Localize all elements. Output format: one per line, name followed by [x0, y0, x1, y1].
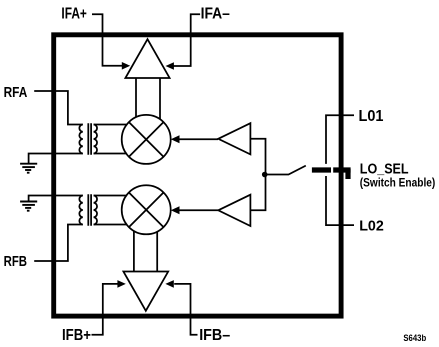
wire T2 secondary to mixer B	[94, 196, 130, 225]
ground symbol GND B	[20, 202, 37, 211]
wire LO2 bracket lower	[326, 176, 354, 225]
wire ground B lead	[29, 196, 83, 202]
arrowhead LO into mixer A	[171, 135, 180, 143]
mixer A circle	[122, 115, 171, 164]
svg-text:IFB–: IFB–	[199, 327, 230, 344]
block arrow shaft A	[136, 78, 160, 126]
switch enable bar stub	[345, 169, 350, 179]
svg-text:LO_SEL: LO_SEL	[360, 161, 409, 177]
svg-text:S643b: S643b	[403, 333, 426, 344]
wire LO buffer B to mixer B	[178, 209, 218, 211]
arrowhead IFA+ into amp A	[122, 62, 130, 70]
arrowhead IFB+ into amp B	[117, 280, 125, 288]
transformer T1 core	[88, 123, 91, 155]
svg-text:IFA–: IFA–	[201, 5, 231, 22]
ground symbol GND A	[20, 164, 37, 173]
block arrow shaft B	[134, 224, 157, 272]
box outline (IC boundary)	[54, 35, 341, 316]
wire IFB+ lead	[92, 284, 119, 335]
LO buffer B triangle	[218, 195, 250, 226]
switch enable thick bar segment 2	[333, 167, 350, 172]
wire LO1 bracket upper	[326, 115, 354, 164]
mixer B circle	[122, 185, 171, 234]
switch junction dot	[262, 172, 268, 178]
transformer T2 primary coil	[79, 196, 82, 225]
wire T1 primary to ground	[29, 154, 83, 164]
arrowhead LO into mixer B	[171, 206, 180, 214]
svg-text:(Switch Enable): (Switch Enable)	[360, 177, 436, 190]
svg-text:L01: L01	[359, 108, 384, 125]
wire T1 secondary to mixer A	[94, 125, 130, 154]
amplifier B triangle	[123, 272, 168, 311]
wire RFA lead	[34, 91, 83, 125]
transformer T2 core	[88, 194, 91, 226]
switch enable thick bar segment 1	[312, 167, 331, 172]
svg-text:RFB: RFB	[4, 253, 28, 270]
wire IFA+ lead	[92, 14, 123, 66]
arrowhead IFA- into amp A	[166, 62, 174, 70]
wire RFB lead	[34, 225, 83, 262]
mixer B cross	[129, 193, 164, 228]
wire IFA- lead	[173, 14, 200, 66]
transformer T1 primary coil	[79, 125, 82, 154]
wire switch pole and lever	[266, 166, 306, 175]
transformer T2 secondary coil	[94, 196, 97, 225]
svg-text:IFA+: IFA+	[61, 5, 87, 22]
LO buffer A triangle	[218, 123, 250, 154]
mixer A cross	[129, 122, 164, 157]
wire IFB- lead	[174, 284, 197, 335]
arrowhead IFB- into amp B	[165, 280, 173, 288]
svg-text:IFB+: IFB+	[62, 327, 91, 344]
svg-text:L02: L02	[359, 218, 384, 235]
wire buffer common vertical	[250, 139, 265, 211]
transformer T1 secondary coil	[94, 125, 97, 154]
amplifier A triangle	[125, 39, 169, 78]
svg-text:RFA: RFA	[4, 84, 28, 101]
wire LO buffer A to mixer A	[178, 138, 218, 140]
